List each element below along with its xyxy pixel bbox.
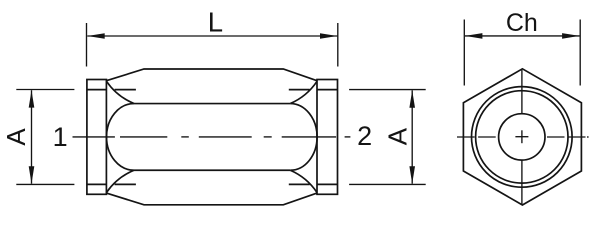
hex body top flat and chamfer edges	[106, 69, 317, 81]
dimension Ch extension lines	[464, 20, 580, 86]
dimension L extension lines	[87, 23, 338, 67]
hex upper edge line	[134, 103, 290, 105]
dimension Ch line	[465, 35, 580, 37]
end view vertical centerline	[521, 70, 523, 205]
tangent line dashes upper	[115, 89, 310, 91]
right end cap chamfer lines	[317, 90, 338, 185]
centerline of side view (dash-dot axis)	[73, 136, 351, 138]
hexagon outline end view	[463, 69, 581, 205]
tangent line dashes lower	[115, 183, 310, 185]
svg-text:2: 2	[357, 121, 372, 151]
dimension Ch arrowheads	[465, 33, 482, 39]
right end cap outline	[317, 80, 338, 195]
dimension A left arrowheads	[29, 90, 35, 107]
svg-text:Ch: Ch	[506, 9, 538, 37]
left end cap outline	[87, 80, 107, 195]
chamfer arc top-right	[290, 81, 317, 103]
chamfer arc top-left	[107, 81, 135, 103]
left end cap chamfer lines	[87, 90, 107, 185]
chamfer circle inner	[476, 91, 568, 183]
dimension A left line	[31, 90, 33, 184]
hex body bottom flat and chamfer edges	[106, 193, 317, 205]
svg-text:L: L	[208, 7, 223, 38]
dimension A left extension lines	[16, 90, 74, 185]
dimension A right arrowheads	[409, 90, 415, 107]
svg-text:A: A	[1, 128, 31, 146]
hex lower edge line	[134, 169, 290, 171]
dimension A right extension lines	[349, 90, 426, 185]
front face arc right	[290, 104, 317, 171]
bore circle	[499, 114, 545, 160]
chamfer arc bottom-left	[107, 170, 135, 192]
chamfer circle outer	[472, 87, 573, 188]
svg-text:A: A	[382, 127, 412, 145]
svg-text:1: 1	[53, 122, 68, 152]
chamfer arc bottom-right	[290, 170, 317, 192]
dimension L line	[87, 35, 337, 37]
dimension A right line	[411, 90, 413, 183]
front face arc left	[107, 104, 134, 171]
center mark cross	[515, 130, 528, 143]
dimension L arrowheads	[87, 33, 104, 39]
end view horizontal centerline	[457, 136, 589, 138]
